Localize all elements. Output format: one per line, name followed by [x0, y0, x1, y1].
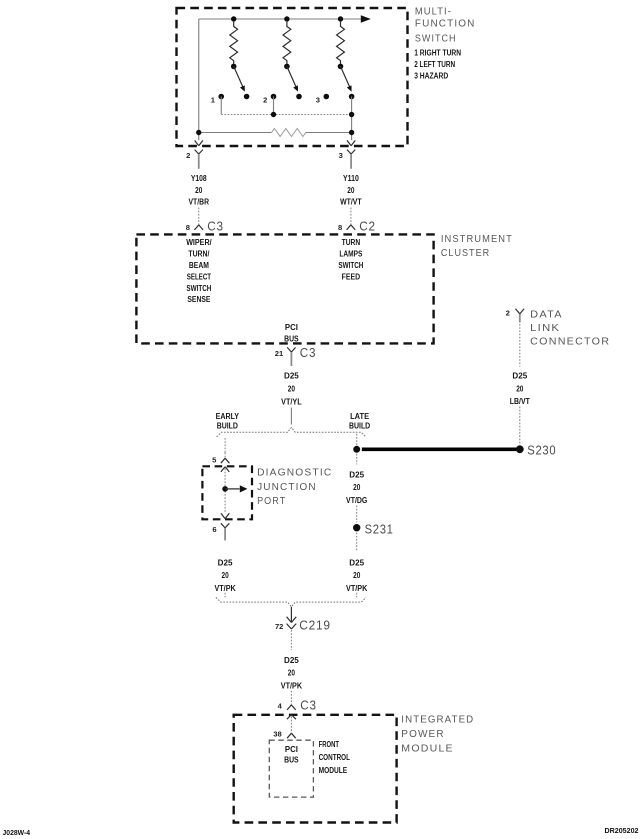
node: contact 2 (right) — [296, 94, 302, 100]
svg-text:C3: C3 — [300, 346, 317, 360]
switch arm 3 — [341, 66, 351, 88]
svg-text:38: 38 — [273, 730, 281, 739]
svg-text:SWITCH: SWITCH — [415, 33, 457, 45]
node: bus junction 2 — [284, 16, 289, 21]
svg-text:D25: D25 — [218, 559, 233, 568]
svg-text:Y110: Y110 — [343, 174, 359, 183]
resistor: switch element 2 — [283, 22, 291, 64]
front control module pci bus box — [269, 740, 313, 797]
svg-text:CLUSTER: CLUSTER — [441, 247, 490, 259]
svg-text:BUS: BUS — [284, 755, 299, 764]
svg-text:J028W-4: J028W-4 — [3, 830, 31, 837]
svg-text:DATA: DATA — [530, 309, 563, 321]
svg-text:20: 20 — [347, 186, 355, 195]
brace: merge to C219 — [216, 597, 366, 606]
connector C2: cluster pin 8 — [350, 208, 352, 225]
svg-text:D25: D25 — [349, 559, 364, 568]
resistor: switch element 3 — [337, 22, 345, 64]
svg-text:20: 20 — [516, 384, 524, 393]
svg-text:6: 6 — [212, 525, 216, 534]
wire: early-build drop (dotted) — [224, 438, 226, 453]
svg-text:D25: D25 — [349, 470, 364, 479]
svg-text:VT/PK: VT/PK — [281, 682, 302, 691]
svg-text:DIAGNOSTIC: DIAGNOSTIC — [257, 467, 332, 479]
arrow: djp exit (down) — [221, 513, 229, 518]
svg-text:PCI: PCI — [285, 323, 298, 332]
wire: late-build drop (dotted) — [356, 434, 358, 445]
splice S230 — [516, 445, 524, 453]
svg-text:VT/PK: VT/PK — [214, 584, 235, 593]
svg-text:72: 72 — [275, 622, 283, 631]
svg-text:S230: S230 — [527, 443, 556, 458]
svg-text:8: 8 — [186, 223, 190, 232]
svg-text:WT/VT: WT/VT — [340, 198, 362, 207]
svg-text:21: 21 — [275, 349, 284, 358]
svg-text:20: 20 — [353, 483, 361, 492]
arrow: djp entry (up) — [221, 467, 229, 472]
wire: C219 out (dotted) — [290, 630, 292, 650]
svg-text:20: 20 — [222, 571, 230, 580]
wire: below tap (dotted) — [356, 454, 358, 465]
svg-text:BEAM: BEAM — [189, 261, 209, 270]
svg-text:3 HAZARD: 3 HAZARD — [414, 72, 448, 81]
diagnostic junction port box — [202, 466, 252, 519]
connector C3: cluster pin 21 — [287, 347, 295, 352]
node: contact 1 (right) — [244, 94, 250, 100]
svg-text:3: 3 — [316, 95, 320, 104]
wire: dlc to S230 (dotted) — [519, 407, 521, 446]
svg-text:TURN: TURN — [342, 238, 361, 247]
node: contact 1 (left) — [218, 94, 224, 100]
node: bus junction 1 — [231, 16, 236, 21]
svg-text:INTEGRATED: INTEGRATED — [401, 714, 474, 726]
svg-text:C3: C3 — [207, 220, 224, 234]
wire: switch feed bus (top) with arrow — [199, 18, 361, 20]
connector: MFS pin 3 — [347, 140, 355, 145]
connector: DJP pin 5 — [224, 453, 226, 459]
svg-text:CONNECTOR: CONNECTOR — [530, 335, 610, 347]
svg-text:INSTRUMENT: INSTRUMENT — [441, 233, 513, 245]
svg-text:20: 20 — [195, 186, 203, 195]
connector C3: cluster pin 8 — [198, 208, 200, 225]
connector: data link connector pin 2 — [516, 309, 525, 314]
svg-text:EARLY: EARLY — [216, 412, 240, 421]
node: bus junction 3 — [338, 16, 343, 21]
svg-text:TURN/: TURN/ — [188, 250, 210, 259]
svg-text:WIPER/: WIPER/ — [186, 238, 212, 247]
wire: left feed down to pin 2 — [198, 19, 200, 140]
svg-text:POWER: POWER — [401, 728, 444, 740]
svg-text:SWITCH: SWITCH — [186, 284, 211, 293]
svg-text:LAMPS: LAMPS — [339, 250, 363, 259]
svg-text:3: 3 — [339, 151, 343, 160]
node: contact 3 (right) — [349, 94, 355, 100]
svg-text:S231: S231 — [365, 521, 394, 536]
node: contact 2 (left) — [271, 94, 277, 100]
integrated power module box — [234, 715, 397, 823]
svg-text:FEED: FEED — [342, 272, 361, 281]
svg-text:BUILD: BUILD — [349, 421, 370, 430]
svg-text:VT/DG: VT/DG — [346, 496, 367, 505]
arrow: djp tap to port — [225, 488, 240, 490]
svg-text:8: 8 — [338, 223, 342, 232]
connector: MFS pin 2 — [195, 140, 203, 145]
svg-text:4: 4 — [278, 702, 283, 711]
multi-function switch box — [177, 8, 408, 146]
svg-text:2: 2 — [263, 95, 267, 104]
svg-text:C2: C2 — [359, 220, 376, 234]
wire: contact 2 drop — [273, 97, 275, 115]
svg-text:VT/BR: VT/BR — [189, 198, 210, 207]
wire: djp internal (dotted) — [224, 469, 226, 513]
svg-text:LB/VT: LB/VT — [510, 397, 530, 406]
wire: ipm internal (dotted) — [290, 717, 292, 730]
svg-text:1 RIGHT TURN: 1 RIGHT TURN — [414, 48, 461, 57]
svg-text:D25: D25 — [284, 656, 299, 665]
wire: to IPM (dotted) — [290, 691, 292, 701]
svg-text:VT/YL: VT/YL — [281, 398, 302, 407]
svg-text:C219: C219 — [299, 617, 331, 632]
svg-text:2: 2 — [186, 151, 190, 160]
svg-text:5: 5 — [212, 456, 217, 465]
arrow: ipm entry (up) — [287, 715, 296, 720]
svg-text:D25: D25 — [512, 372, 527, 381]
switch arm 1 — [234, 66, 244, 88]
resistor: switch element 1 — [230, 22, 238, 64]
svg-text:LATE: LATE — [350, 412, 370, 421]
wire: dlc drop (dotted) — [519, 324, 521, 367]
svg-text:CONTROL: CONTROL — [319, 753, 350, 762]
wire: to S231 (dotted) — [356, 506, 358, 523]
connector C3: IPM pin 4 — [290, 700, 292, 705]
svg-text:D25: D25 — [284, 372, 299, 381]
resistor: hazard element — [272, 129, 306, 137]
brace: build split — [217, 428, 366, 437]
node: switch pivot 3 — [338, 64, 344, 70]
svg-text:FRONT: FRONT — [319, 740, 339, 749]
node: djp tap — [222, 486, 228, 492]
instrument cluster box — [136, 234, 433, 343]
wire: lower link with resistor — [199, 132, 272, 134]
node: link junction — [271, 112, 276, 117]
node: lower left junction — [196, 130, 201, 135]
switch arm 2 — [287, 66, 297, 88]
svg-text:JUNCTION: JUNCTION — [257, 481, 317, 493]
svg-text:SENSE: SENSE — [187, 295, 211, 304]
svg-text:2: 2 — [506, 309, 510, 318]
svg-text:FUNCTION: FUNCTION — [415, 18, 476, 30]
wire: to lower brace (right stub) — [356, 593, 358, 598]
node: switch pivot 1 — [231, 64, 237, 70]
svg-text:LINK: LINK — [530, 322, 560, 334]
svg-text:BUS: BUS — [284, 335, 299, 344]
wire: to lower brace (left stub) — [224, 593, 226, 598]
wire: cluster to splice brace — [290, 408, 292, 425]
svg-text:SELECT: SELECT — [187, 272, 211, 281]
svg-text:C3: C3 — [300, 699, 317, 713]
svg-text:BUILD: BUILD — [217, 421, 238, 430]
wire: below S231 (dotted) — [356, 533, 358, 552]
node: lower right junction — [349, 130, 354, 135]
node: link junction right — [349, 112, 354, 117]
connector: FCM pin 38 — [290, 730, 292, 734]
svg-text:MULTI-: MULTI- — [415, 5, 452, 17]
connector C219 — [290, 607, 292, 622]
node: switch pivot 2 — [284, 64, 290, 70]
svg-text:20: 20 — [353, 571, 361, 580]
svg-text:Y108: Y108 — [191, 174, 207, 183]
connector: DJP pin 6 — [221, 523, 229, 528]
svg-text:SWITCH: SWITCH — [338, 261, 363, 270]
svg-text:PCI: PCI — [285, 745, 298, 754]
svg-text:VT/PK: VT/PK — [346, 584, 367, 593]
svg-text:20: 20 — [288, 669, 296, 678]
svg-text:1: 1 — [211, 95, 216, 104]
svg-text:20: 20 — [288, 385, 296, 394]
wire: contact 3 drop to pin 3 — [351, 97, 353, 141]
svg-text:MODULE: MODULE — [319, 766, 348, 775]
svg-text:DR205202: DR205202 — [605, 828, 639, 835]
wire: contact 1 drop — [220, 97, 222, 115]
wire: common link (dotted) — [221, 114, 351, 116]
wire: bus to S230 (thick) — [362, 447, 519, 451]
node: splice S230 tap — [353, 446, 360, 453]
svg-text:MODULE: MODULE — [401, 742, 454, 754]
splice S231 — [353, 524, 360, 531]
node: contact 3 (left) — [324, 94, 330, 100]
svg-text:2 LEFT TURN: 2 LEFT TURN — [414, 60, 455, 69]
svg-text:PORT: PORT — [257, 495, 286, 507]
